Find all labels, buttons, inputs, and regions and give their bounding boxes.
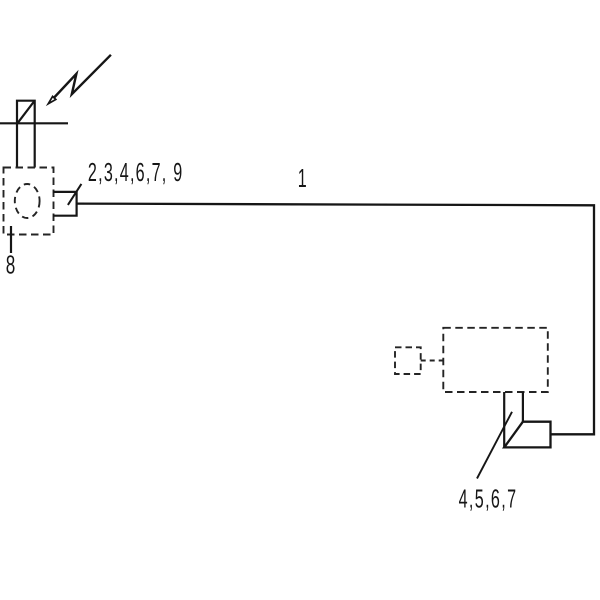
svg-text:2,3,4,6,7, 9: 2,3,4,6,7, 9 xyxy=(88,157,184,187)
svg-text:4,5,6,7: 4,5,6,7 xyxy=(459,484,518,514)
svg-text:1: 1 xyxy=(298,163,307,193)
svg-text:8: 8 xyxy=(6,250,16,280)
